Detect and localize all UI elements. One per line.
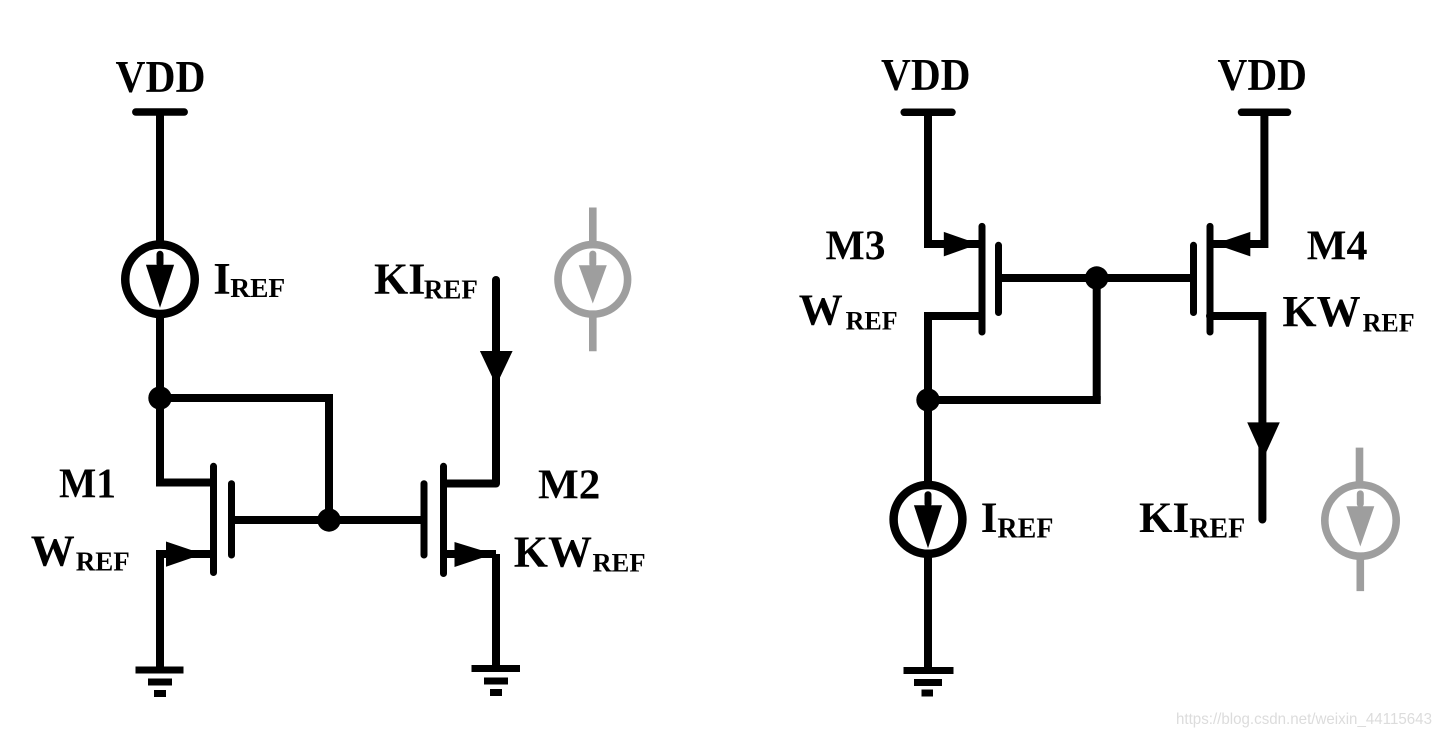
wire current source to ground (right)	[924, 555, 932, 670]
svg-text:VDD: VDD	[116, 51, 206, 102]
transistor M1 gate bar	[228, 484, 235, 555]
power rail VDD bar (M4)	[1242, 109, 1288, 117]
transistor M1 channel bar	[210, 466, 217, 572]
svg-text:KWREF: KWREF	[514, 528, 646, 578]
ghost current source (left, gray)	[558, 208, 628, 352]
svg-text:KWREF: KWREF	[1282, 287, 1414, 338]
svg-text:https://blog.csdn.net/weixin_4: https://blog.csdn.net/weixin_44115643	[1176, 711, 1432, 728]
transistor M2 channel bar	[440, 466, 447, 573]
wire gate drop vertical	[325, 394, 333, 520]
current source IREF circle (right)	[894, 485, 963, 554]
current source IREF arrow (left)	[146, 254, 174, 307]
wire diode connection horizontal	[928, 396, 1101, 404]
current source IREF circle (left)	[125, 245, 195, 315]
ground (M2)	[472, 669, 521, 693]
svg-text:VDD: VDD	[881, 49, 971, 100]
svg-text:M3: M3	[826, 223, 886, 270]
power rail VDD bar (M3)	[904, 109, 952, 117]
wire KIREF current input	[492, 280, 500, 484]
transistor M2 source arrow	[455, 542, 494, 567]
svg-text:KIREF: KIREF	[374, 255, 478, 305]
wire M1 source lead	[156, 550, 214, 558]
wire M4 drain lead	[1210, 316, 1262, 520]
wire M2 source lead	[444, 550, 497, 558]
svg-text:WREF: WREF	[799, 286, 898, 336]
wire M1 source to ground	[156, 554, 164, 668]
wire common gate M1-M2	[232, 516, 425, 524]
wire M2 source to ground	[492, 554, 500, 665]
transistor M4 channel bar	[1207, 226, 1214, 332]
current source IREF arrow (right)	[914, 495, 942, 549]
arrow KIREF down (right)	[1247, 422, 1280, 458]
wire common gate M3-M4	[999, 274, 1194, 282]
transistor M1 source arrow	[166, 542, 203, 567]
ground (M1)	[136, 670, 184, 694]
ground (right circuit)	[904, 671, 954, 694]
svg-text:M1: M1	[59, 461, 116, 508]
wire diode connection vertical	[1093, 278, 1101, 400]
transistor M4 source arrow	[1215, 232, 1251, 257]
wire VDD to M3 source	[928, 112, 982, 244]
transistor M4 gate bar	[1190, 245, 1197, 312]
wire VDD to M4 source	[1210, 112, 1264, 244]
svg-text:M4: M4	[1307, 223, 1368, 270]
svg-text:KIREF: KIREF	[1139, 495, 1245, 545]
wire M3 drain lead	[928, 316, 982, 400]
svg-text:WREF: WREF	[31, 527, 130, 577]
svg-text:IREF: IREF	[981, 495, 1054, 545]
node B junction dot	[916, 388, 939, 411]
wire current source to node A	[156, 315, 164, 399]
transistor M2 gate bar	[421, 484, 428, 555]
wire M2 drain lead	[444, 480, 497, 488]
svg-text:VDD: VDD	[1218, 49, 1308, 100]
arrow KIREF down (left)	[480, 351, 513, 386]
transistor M3 channel bar	[979, 226, 986, 332]
ghost current source (right, gray)	[1325, 448, 1396, 591]
node gate junction dot (left)	[317, 508, 340, 531]
wire node B to current source	[924, 400, 932, 484]
wire M1 drain lead	[160, 394, 214, 483]
transistor M3 gate bar	[995, 245, 1002, 312]
svg-text:M2: M2	[538, 462, 600, 509]
wire node A to gate drop	[160, 394, 329, 402]
power rail VDD bar (left circuit)	[136, 108, 184, 116]
node A junction dot	[148, 386, 171, 409]
node gate junction dot (right)	[1085, 266, 1108, 289]
svg-text:IREF: IREF	[213, 254, 285, 304]
transistor M3 source arrow	[944, 232, 979, 257]
wire VDD to current source	[156, 112, 164, 244]
